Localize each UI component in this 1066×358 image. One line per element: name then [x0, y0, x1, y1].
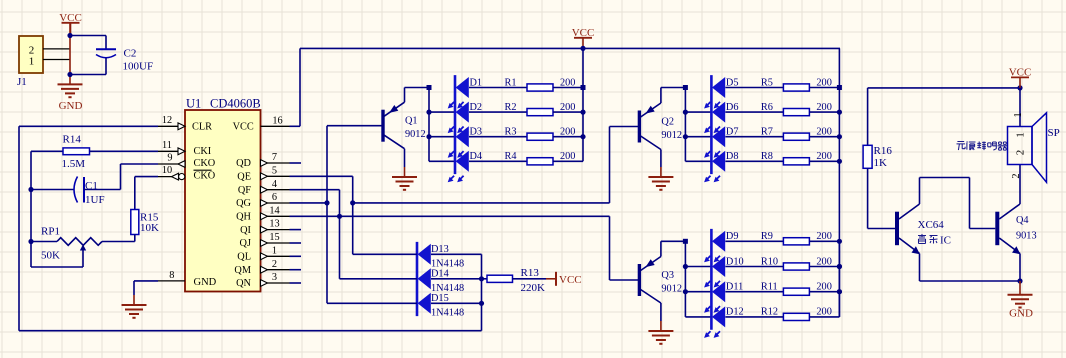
svg-text:6: 6	[272, 192, 277, 203]
svg-text:200: 200	[560, 77, 575, 88]
svg-text:1UF: 1UF	[85, 194, 105, 206]
svg-text:8: 8	[169, 270, 174, 281]
svg-text:R8: R8	[761, 151, 773, 162]
svg-text:9012: 9012	[405, 129, 426, 140]
svg-text:2: 2	[1014, 150, 1026, 156]
svg-text:1K: 1K	[874, 157, 888, 169]
svg-text:C2: C2	[124, 48, 137, 60]
svg-text:3: 3	[272, 272, 277, 283]
svg-text:200: 200	[816, 151, 831, 162]
svg-text:1: 1	[272, 245, 277, 256]
svg-text:QH: QH	[236, 212, 251, 223]
svg-text:10K: 10K	[140, 222, 159, 234]
svg-text:C1: C1	[85, 180, 98, 192]
svg-text:J1: J1	[17, 76, 27, 88]
svg-text:R7: R7	[761, 127, 773, 138]
svg-text:200: 200	[560, 151, 575, 162]
svg-text:CLR: CLR	[192, 121, 212, 132]
svg-text:QL: QL	[237, 252, 251, 263]
svg-text:200: 200	[560, 127, 575, 138]
svg-text:7: 7	[272, 152, 277, 163]
svg-text:R11: R11	[761, 282, 778, 293]
svg-text:R4: R4	[505, 151, 517, 162]
svg-text:4: 4	[272, 179, 277, 190]
svg-text:1: 1	[1013, 112, 1024, 117]
svg-text:15: 15	[269, 232, 279, 243]
svg-text:1.5M: 1.5M	[62, 158, 86, 170]
svg-text:GND: GND	[194, 277, 217, 288]
svg-text:13: 13	[269, 219, 279, 230]
svg-text:1N4148: 1N4148	[431, 308, 464, 319]
svg-text:VCC: VCC	[233, 121, 254, 132]
svg-text:200: 200	[816, 127, 831, 138]
svg-text:R6: R6	[761, 102, 773, 113]
svg-text:D10: D10	[726, 256, 744, 267]
svg-text:U1: U1	[186, 97, 201, 111]
svg-text:11: 11	[162, 140, 172, 151]
svg-text:R10: R10	[761, 256, 778, 267]
svg-text:IC: IC	[940, 235, 951, 247]
svg-text:GND: GND	[1009, 308, 1033, 320]
svg-text:200: 200	[816, 77, 831, 88]
svg-text:R3: R3	[505, 127, 517, 138]
svg-text:1: 1	[1014, 132, 1026, 138]
svg-text:50K: 50K	[41, 250, 60, 262]
svg-text:D2: D2	[470, 102, 483, 113]
svg-text:SP: SP	[1048, 127, 1060, 139]
svg-text:VCC: VCC	[559, 274, 582, 286]
svg-text:D4: D4	[470, 151, 483, 162]
svg-text:14: 14	[269, 205, 279, 216]
svg-text:QF: QF	[238, 185, 251, 196]
svg-text:D14: D14	[431, 269, 449, 280]
svg-text:R13: R13	[521, 267, 540, 279]
svg-text:Q2: Q2	[661, 117, 674, 128]
svg-text:QE: QE	[237, 172, 251, 183]
svg-text:R2: R2	[505, 102, 517, 113]
svg-text:200: 200	[816, 307, 831, 318]
svg-text:Q3: Q3	[661, 270, 674, 281]
svg-text:2: 2	[1011, 173, 1022, 178]
svg-text:9012: 9012	[661, 284, 682, 295]
svg-text:QD: QD	[236, 158, 251, 169]
svg-text:200: 200	[816, 231, 831, 242]
svg-text:CKO: CKO	[194, 158, 216, 169]
svg-text:200: 200	[560, 102, 575, 113]
svg-text:QN: QN	[236, 278, 251, 289]
svg-text:D3: D3	[470, 127, 483, 138]
svg-text:QM: QM	[234, 265, 251, 276]
svg-text:12: 12	[162, 115, 172, 126]
svg-text:9013: 9013	[1016, 231, 1037, 242]
svg-text:D13: D13	[431, 244, 449, 255]
svg-text:RP1: RP1	[41, 226, 60, 238]
svg-text:Q4: Q4	[1016, 215, 1029, 226]
svg-text:QI: QI	[240, 225, 251, 236]
svg-text:1: 1	[29, 55, 35, 67]
svg-text:100UF: 100UF	[123, 61, 154, 73]
svg-text:10: 10	[162, 165, 172, 176]
svg-text:GND: GND	[59, 100, 83, 112]
svg-text:R12: R12	[761, 307, 778, 318]
svg-text:XC64: XC64	[918, 219, 945, 231]
svg-text:CD4060B: CD4060B	[210, 97, 261, 111]
svg-text:2: 2	[272, 259, 277, 270]
svg-text:D15: D15	[431, 293, 449, 304]
svg-text:5: 5	[272, 165, 277, 176]
svg-text:D6: D6	[726, 102, 739, 113]
svg-text:200: 200	[816, 102, 831, 113]
svg-text:R9: R9	[761, 231, 773, 242]
svg-text:D9: D9	[726, 231, 739, 242]
svg-text:Q1: Q1	[405, 116, 418, 127]
svg-text:CKO: CKO	[194, 171, 216, 182]
svg-text:R14: R14	[63, 134, 82, 146]
svg-text:R16: R16	[874, 145, 893, 157]
svg-text:16: 16	[272, 115, 282, 126]
svg-text:CKI: CKI	[194, 146, 212, 157]
svg-text:9: 9	[167, 153, 172, 164]
svg-text:R1: R1	[505, 77, 517, 88]
svg-text:200: 200	[816, 282, 831, 293]
svg-text:D5: D5	[726, 77, 739, 88]
svg-text:220K: 220K	[521, 282, 546, 294]
svg-text:D1: D1	[470, 77, 483, 88]
svg-text:D12: D12	[726, 307, 744, 318]
svg-text:QJ: QJ	[240, 238, 251, 249]
svg-text:200: 200	[816, 256, 831, 267]
svg-text:9012: 9012	[661, 130, 682, 141]
svg-text:D8: D8	[726, 151, 739, 162]
svg-text:D7: D7	[726, 127, 739, 138]
svg-text:D11: D11	[726, 282, 743, 293]
svg-text:R5: R5	[761, 77, 773, 88]
svg-text:QG: QG	[236, 198, 251, 209]
